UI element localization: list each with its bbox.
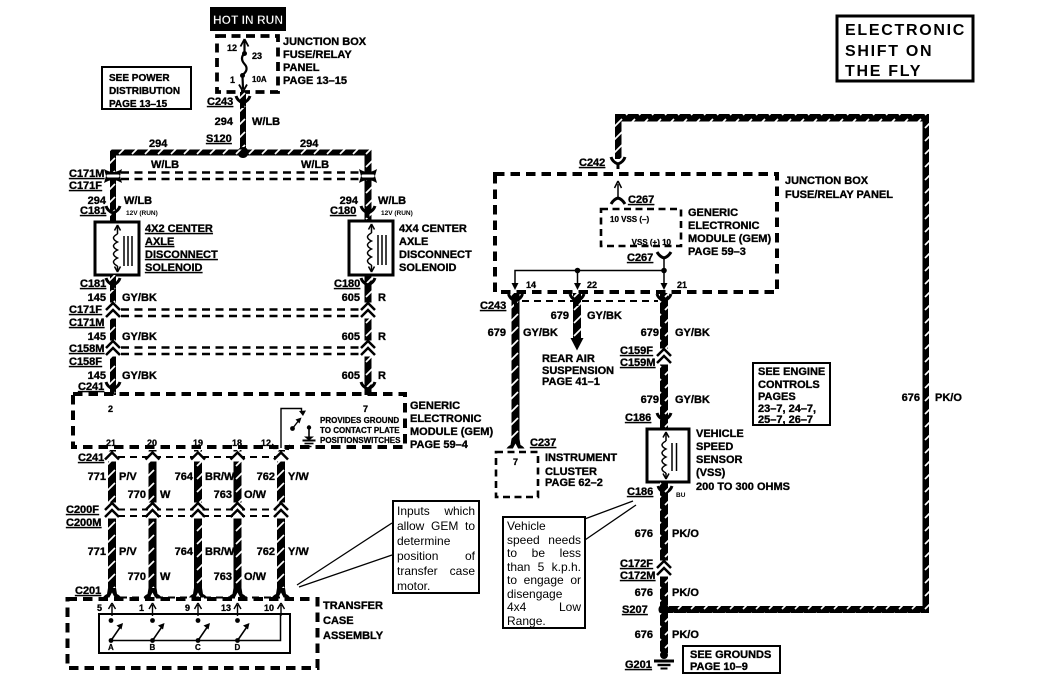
- svg-text:C180: C180: [330, 205, 356, 217]
- wire 771 P/V (GEM 21 to C201 5): [108, 450, 116, 591]
- GEM inner box (dashed): [601, 209, 681, 246]
- svg-text:19: 19: [193, 438, 203, 448]
- svg-text:C241: C241: [78, 381, 104, 393]
- svg-text:763: 763: [214, 489, 232, 501]
- VSS box: [647, 429, 689, 482]
- svg-text:C159F: C159F: [620, 345, 653, 357]
- see engine controls box: [753, 363, 830, 425]
- callout pointer lines (inputs): [297, 523, 392, 587]
- svg-text:676: 676: [635, 629, 653, 641]
- provides ground note: [320, 416, 401, 445]
- svg-text:10: 10: [264, 603, 274, 613]
- C158 chevron right: [361, 341, 375, 357]
- svg-text:PK/O: PK/O: [672, 587, 699, 599]
- svg-text:CONTROLS: CONTROLS: [758, 379, 820, 391]
- svg-text:BU: BU: [676, 492, 686, 499]
- svg-text:SENSOR: SENSOR: [696, 454, 743, 466]
- svg-text:762: 762: [257, 546, 275, 558]
- svg-text:W/LB: W/LB: [378, 195, 406, 207]
- svg-text:INSTRUMENT: INSTRUMENT: [545, 452, 617, 464]
- svg-text:679: 679: [488, 327, 506, 339]
- svg-text:23: 23: [252, 51, 262, 61]
- svg-text:145: 145: [88, 331, 106, 343]
- switch A: [108, 618, 123, 652]
- svg-text:SEE POWER: SEE POWER: [109, 73, 170, 84]
- svg-text:10A: 10A: [252, 75, 267, 84]
- svg-text:764: 764: [175, 546, 194, 558]
- wire 762 Y/W (GEM 12 to C201 10): [277, 450, 285, 591]
- svg-text:S120: S120: [206, 133, 232, 145]
- junction box text: [283, 36, 367, 87]
- C171 dashed connector lines: [121, 173, 360, 180]
- svg-text:W/LB: W/LB: [301, 159, 329, 171]
- svg-text:1: 1: [139, 603, 144, 613]
- svg-text:294: 294: [215, 116, 234, 128]
- svg-text:145: 145: [88, 292, 106, 304]
- svg-text:PAGE 41–1: PAGE 41–1: [542, 376, 600, 388]
- svg-text:679: 679: [551, 310, 569, 322]
- svg-text:605: 605: [342, 331, 360, 343]
- svg-text:C200F: C200F: [66, 504, 99, 516]
- C241 dashed connector line: [118, 456, 286, 458]
- wire 679 GY/BK (VSS): [660, 293, 668, 429]
- switch D: [235, 618, 250, 652]
- svg-text:GENERIC: GENERIC: [688, 207, 738, 219]
- svg-text:13: 13: [221, 603, 231, 613]
- svg-text:R: R: [378, 292, 386, 304]
- svg-text:C180: C180: [334, 278, 360, 290]
- svg-text:P/V: P/V: [119, 471, 137, 483]
- svg-text:ELECTRONIC: ELECTRONIC: [845, 22, 966, 39]
- svg-text:PAGE 13–15: PAGE 13–15: [109, 99, 168, 110]
- svg-text:PAGE 62–2: PAGE 62–2: [545, 477, 603, 489]
- svg-text:200 TO 300 OHMS: 200 TO 300 OHMS: [696, 481, 790, 493]
- svg-text:12V (RUN): 12V (RUN): [126, 210, 158, 217]
- C171 connector knot right: [359, 169, 377, 183]
- switch common line: [111, 614, 281, 641]
- svg-text:SEE GROUNDS: SEE GROUNDS: [690, 649, 771, 661]
- svg-text:CASE: CASE: [323, 615, 354, 627]
- transfer case pin arrows: [109, 603, 285, 616]
- svg-text:9: 9: [185, 603, 190, 613]
- C243 dashed line: [522, 300, 658, 302]
- svg-text:DISCONNECT: DISCONNECT: [399, 249, 472, 261]
- svg-text:R: R: [378, 370, 386, 382]
- C201 dashed line: [120, 597, 280, 599]
- svg-text:Y/W: Y/W: [288, 471, 309, 483]
- svg-text:C158M: C158M: [69, 343, 104, 355]
- svg-text:679: 679: [641, 327, 659, 339]
- svg-text:22: 22: [587, 280, 597, 290]
- svg-text:Y/W: Y/W: [288, 546, 309, 558]
- svg-text:7: 7: [363, 404, 368, 414]
- see power distribution box: [102, 67, 191, 109]
- svg-text:ASSEMBLY: ASSEMBLY: [323, 630, 384, 642]
- wire 679 GY/BK (rear air susp): [573, 293, 581, 338]
- svg-text:2: 2: [108, 404, 113, 414]
- transfer case label: [323, 600, 384, 642]
- junction dot 21: [661, 268, 667, 274]
- svg-text:C172F: C172F: [620, 558, 653, 570]
- svg-text:C171M: C171M: [69, 168, 104, 180]
- C243 ycon symbols: [509, 294, 523, 306]
- wire fuse to S120 bus: [240, 92, 246, 153]
- svg-text:676: 676: [635, 528, 653, 540]
- svg-text:GY/BK: GY/BK: [122, 292, 157, 304]
- svg-text:762: 762: [257, 471, 275, 483]
- svg-text:C171F: C171F: [69, 180, 102, 192]
- svg-text:770: 770: [128, 489, 146, 501]
- instrument cluster label: [545, 452, 617, 489]
- svg-text:S207: S207: [622, 604, 648, 616]
- svg-text:GY/BK: GY/BK: [122, 370, 157, 382]
- svg-text:25–7, 26–7: 25–7, 26–7: [758, 414, 813, 426]
- svg-text:4X2 CENTER: 4X2 CENTER: [145, 223, 213, 235]
- rear air suspension arrow: [571, 338, 584, 351]
- svg-text:C242: C242: [579, 157, 605, 169]
- svg-text:SHIFT ON: SHIFT ON: [845, 43, 933, 60]
- C201 feet on five wires: [103, 588, 121, 598]
- svg-text:C171M: C171M: [69, 317, 104, 329]
- svg-text:O/W: O/W: [244, 489, 267, 501]
- svg-text:605: 605: [342, 370, 360, 382]
- svg-text:VEHICLE: VEHICLE: [696, 428, 744, 440]
- GEM internal ground: [307, 425, 311, 429]
- GEM right label: [688, 207, 771, 258]
- wire drop to C242: [615, 114, 622, 159]
- svg-text:MODULE (GEM): MODULE (GEM): [688, 233, 771, 245]
- svg-text:C171F: C171F: [69, 304, 102, 316]
- svg-text:P/V: P/V: [119, 546, 137, 558]
- svg-text:W/LB: W/LB: [252, 116, 280, 128]
- svg-text:770: 770: [128, 571, 146, 583]
- transfer case assembly box (dashed): [68, 599, 318, 668]
- svg-text:12: 12: [227, 43, 237, 53]
- 4X4 solenoid box: [349, 221, 393, 275]
- C158 dashed lines: [121, 348, 360, 355]
- svg-text:SOLENOID: SOLENOID: [145, 262, 203, 274]
- fuse F23 symbol: [239, 39, 249, 92]
- svg-text:771: 771: [88, 471, 106, 483]
- svg-text:W: W: [160, 571, 171, 583]
- internal wire C267 to pins: [515, 258, 664, 284]
- wire top bus to right (676 PK/O feed): [615, 114, 929, 122]
- svg-text:C267: C267: [627, 252, 653, 264]
- svg-text:C: C: [195, 643, 201, 652]
- VSS label: [696, 428, 790, 493]
- svg-text:PK/O: PK/O: [672, 528, 699, 540]
- svg-text:GY/BK: GY/BK: [675, 394, 710, 406]
- svg-text:679: 679: [641, 394, 659, 406]
- pin arrows down 14 22 21: [512, 283, 519, 290]
- svg-text:C186: C186: [627, 486, 653, 498]
- svg-text:21: 21: [106, 438, 116, 448]
- svg-text:PAGE 10–9: PAGE 10–9: [690, 661, 748, 673]
- svg-text:TO CONTACT PLATE: TO CONTACT PLATE: [320, 426, 400, 435]
- svg-text:605: 605: [342, 292, 360, 304]
- callout pointer lines (vehicle speed): [582, 501, 636, 542]
- GEM label: [410, 400, 493, 451]
- GEM module box (dashed): [73, 394, 405, 447]
- svg-text:DISTRIBUTION: DISTRIBUTION: [109, 86, 180, 97]
- svg-text:ELECTRONIC: ELECTRONIC: [688, 220, 760, 232]
- svg-text:BR/W: BR/W: [205, 546, 235, 558]
- C200 chevrons on five wires: [105, 503, 119, 519]
- wire 145 GY/BK left: [110, 275, 116, 395]
- C171 chevron right row2: [361, 303, 375, 319]
- svg-text:C181: C181: [80, 205, 106, 217]
- title box ELECTRONIC SHIFT ON THE FLY: [837, 16, 973, 81]
- svg-text:C237: C237: [530, 437, 556, 449]
- svg-text:W/LB: W/LB: [124, 195, 152, 207]
- svg-text:MODULE (GEM): MODULE (GEM): [410, 426, 493, 438]
- svg-text:1: 1: [230, 75, 235, 85]
- svg-text:7: 7: [513, 457, 518, 467]
- svg-text:REAR AIR: REAR AIR: [542, 353, 595, 365]
- svg-text:TRANSFER: TRANSFER: [323, 600, 383, 612]
- wire 605 R right: [365, 275, 372, 395]
- svg-text:5: 5: [97, 603, 102, 613]
- svg-text:18: 18: [232, 438, 242, 448]
- svg-text:PAGES: PAGES: [758, 391, 796, 403]
- wire 294 left vertical: [110, 152, 116, 222]
- svg-text:W/LB: W/LB: [151, 159, 179, 171]
- main bus wire 294: [110, 150, 372, 156]
- svg-text:DISCONNECT: DISCONNECT: [145, 249, 218, 261]
- svg-text:ELECTRONIC: ELECTRONIC: [410, 413, 482, 425]
- svg-text:C201: C201: [75, 585, 101, 597]
- note box: vehicle speed: [502, 516, 586, 629]
- note box: inputs which allow GEM: [392, 500, 480, 594]
- svg-text:AXLE: AXLE: [399, 236, 428, 248]
- svg-text:G201: G201: [625, 659, 652, 671]
- svg-text:C243: C243: [207, 96, 233, 108]
- svg-text:VSS (+) 10: VSS (+) 10: [632, 238, 672, 247]
- svg-text:C186: C186: [625, 412, 651, 424]
- wire 770 W (GEM 20 to C201 1): [149, 450, 157, 591]
- wire right vertical 676 PK/O: [923, 114, 930, 613]
- svg-text:FUSE/RELAY: FUSE/RELAY: [283, 49, 352, 61]
- 4X2 solenoid label: [145, 223, 218, 274]
- transfer case inner box: [99, 614, 290, 653]
- svg-text:C241: C241: [78, 452, 104, 464]
- svg-text:D: D: [235, 643, 241, 652]
- svg-text:PROVIDES GROUND: PROVIDES GROUND: [320, 416, 399, 425]
- wire 679 GY/BK (instrument cluster): [512, 293, 520, 439]
- power source label HOT IN RUN: [210, 7, 286, 31]
- 4X2 solenoid internals: [114, 225, 133, 272]
- junction box label: [785, 175, 893, 201]
- svg-text:PK/O: PK/O: [672, 629, 699, 641]
- wire S207 to G201: [660, 613, 668, 653]
- svg-text:C159M: C159M: [620, 357, 655, 369]
- C241 chevrons on five wires: [105, 452, 119, 462]
- svg-text:THE FLY: THE FLY: [845, 63, 922, 80]
- pin 12 arrows: [272, 444, 290, 450]
- svg-text:21: 21: [677, 280, 687, 290]
- instrument cluster box (dashed): [496, 452, 538, 497]
- see grounds box: [683, 646, 780, 673]
- svg-text:14: 14: [526, 280, 536, 290]
- wire 764 BR/W (GEM 19 to C201 9): [194, 450, 202, 591]
- svg-text:BR/W: BR/W: [205, 471, 235, 483]
- svg-text:GY/BK: GY/BK: [523, 327, 558, 339]
- svg-text:PAGE 13–15: PAGE 13–15: [283, 75, 347, 87]
- svg-text:GY/BK: GY/BK: [587, 310, 622, 322]
- switch B: [150, 618, 165, 652]
- junction box fuse/relay panel right (dashed): [495, 174, 777, 292]
- svg-text:771: 771: [88, 546, 106, 558]
- svg-text:SEE ENGINE: SEE ENGINE: [758, 366, 825, 378]
- C159 chevrons: [657, 349, 671, 365]
- C158 chevron left: [106, 341, 120, 357]
- junction box fuse/relay panel (dashed): [217, 36, 278, 92]
- svg-text:C172M: C172M: [620, 570, 655, 582]
- 4X2 solenoid box: [95, 222, 139, 275]
- svg-text:JUNCTION BOX: JUNCTION BOX: [283, 36, 367, 48]
- svg-text:12V (RUN): 12V (RUN): [381, 210, 413, 217]
- junction dot 22: [575, 268, 581, 274]
- svg-text:764: 764: [175, 471, 194, 483]
- svg-text:676: 676: [902, 392, 920, 404]
- svg-text:POSITIONSWITCHES: POSITIONSWITCHES: [320, 436, 401, 445]
- svg-text:294: 294: [149, 138, 168, 150]
- svg-text:R: R: [378, 331, 386, 343]
- C200 dashed lines: [118, 510, 286, 517]
- svg-text:FUSE/RELAY PANEL: FUSE/RELAY PANEL: [785, 189, 893, 201]
- VSS internals: [662, 432, 677, 479]
- svg-text:SPEED: SPEED: [696, 441, 733, 453]
- svg-text:20: 20: [147, 438, 157, 448]
- wire 763 O/W (GEM 18 to C201 13): [234, 450, 242, 591]
- rear air suspension label: [542, 353, 614, 388]
- svg-text:B: B: [150, 643, 156, 652]
- 4X4 solenoid internals: [368, 224, 387, 272]
- svg-text:AXLE: AXLE: [145, 236, 174, 248]
- svg-text:HOT IN RUN: HOT IN RUN: [213, 13, 283, 27]
- svg-text:C158F: C158F: [69, 356, 102, 368]
- svg-text:10 VSS (–): 10 VSS (–): [610, 215, 649, 224]
- svg-text:(VSS): (VSS): [696, 467, 726, 479]
- svg-text:C181: C181: [80, 278, 106, 290]
- svg-text:C267: C267: [628, 194, 654, 206]
- switch C: [195, 618, 210, 652]
- svg-text:PANEL: PANEL: [283, 62, 320, 74]
- svg-text:PK/O: PK/O: [935, 392, 962, 404]
- svg-text:JUNCTION BOX: JUNCTION BOX: [785, 175, 869, 187]
- C171 dashed lines row2: [121, 310, 360, 317]
- 4X4 solenoid label: [399, 223, 472, 274]
- connector C267 top: [611, 198, 625, 204]
- svg-text:O/W: O/W: [244, 571, 267, 583]
- C171 connector knot left: [104, 169, 122, 183]
- svg-text:PAGE 59–3: PAGE 59–3: [688, 246, 746, 258]
- C172 chevrons: [657, 561, 671, 577]
- svg-text:GY/BK: GY/BK: [675, 327, 710, 339]
- svg-text:W: W: [160, 489, 171, 501]
- wire 676 PK/O (VSS to S207): [660, 482, 668, 606]
- wire S207 to right riser: [668, 606, 929, 613]
- svg-text:763: 763: [214, 571, 232, 583]
- svg-text:4X4 CENTER: 4X4 CENTER: [399, 223, 467, 235]
- svg-text:SOLENOID: SOLENOID: [399, 262, 457, 274]
- svg-text:PAGE 59–4: PAGE 59–4: [410, 439, 469, 451]
- svg-text:294: 294: [300, 138, 319, 150]
- wire 294 right vertical: [365, 152, 372, 222]
- svg-text:C243: C243: [480, 300, 506, 312]
- svg-text:GENERIC: GENERIC: [410, 400, 460, 412]
- svg-text:12: 12: [261, 438, 271, 448]
- wire C242 to C267 (thin): [615, 181, 622, 199]
- connector C241 right: [361, 382, 375, 394]
- svg-text:GY/BK: GY/BK: [122, 331, 157, 343]
- svg-text:A: A: [108, 643, 114, 652]
- GEM internal switch to pin 12: [281, 409, 302, 449]
- C171 chevron left row2: [106, 303, 120, 319]
- svg-text:C200M: C200M: [66, 517, 101, 529]
- svg-text:676: 676: [635, 587, 653, 599]
